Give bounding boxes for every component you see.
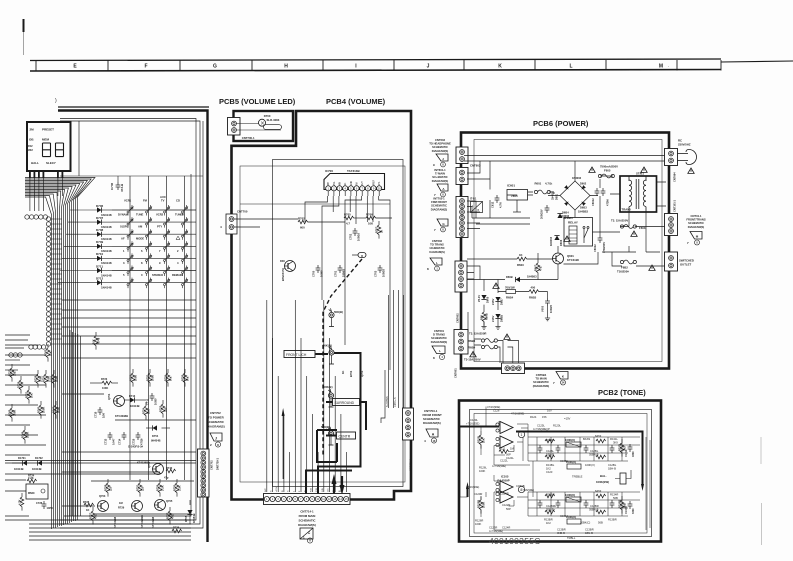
svg-text:10K: 10K xyxy=(30,393,34,398)
svg-text:C126L: C126L xyxy=(546,449,554,453)
svg-text:R707: R707 xyxy=(375,226,379,233)
svg-text:R603: R603 xyxy=(517,263,524,267)
svg-text:TRAN5: TRAN5 xyxy=(622,208,632,212)
svg-text:C6012: C6012 xyxy=(591,198,595,206)
tone network L channel xyxy=(528,437,640,461)
svg-text:47E: 47E xyxy=(94,514,98,519)
svg-text:R731: R731 xyxy=(136,484,140,491)
connector pin row xyxy=(25,215,48,349)
svg-text:N/C: N/C xyxy=(265,488,267,492)
resistor R730 xyxy=(175,483,179,493)
svg-text:C725: C725 xyxy=(132,438,136,445)
svg-text:RX2: RX2 xyxy=(28,144,34,148)
svg-text:R125R: R125R xyxy=(477,500,481,508)
connector CNT101-1 xyxy=(665,214,678,236)
svg-text:C122R: C122R xyxy=(502,503,510,507)
svg-text:D711: D711 xyxy=(96,264,103,268)
svg-text:DIAGRAM(S): DIAGRAM(S) xyxy=(432,149,449,153)
svg-text:R740: R740 xyxy=(166,466,173,470)
ref flag L2 xyxy=(432,346,445,354)
svg-text:R739: R739 xyxy=(156,484,160,491)
svg-text:C120R: C120R xyxy=(474,492,482,496)
svg-text:1/50: 1/50 xyxy=(102,412,106,418)
svg-text:SCHEMATIC: SCHEMATIC xyxy=(207,420,225,424)
svg-text:100K(K): 100K(K) xyxy=(565,438,575,442)
diode D711 xyxy=(60,270,97,272)
svg-text:1N4BB3: 1N4BB3 xyxy=(578,210,589,214)
svg-text:D707: D707 xyxy=(96,216,104,220)
svg-text:D719: D719 xyxy=(17,381,21,388)
svg-text:PCB2 (TONE): PCB2 (TONE) xyxy=(598,388,646,397)
svg-text:56P: 56P xyxy=(506,507,511,511)
svg-text:47/16(99E): 47/16(99E) xyxy=(487,405,500,409)
svg-text:600: 600 xyxy=(300,226,305,230)
svg-text:CNT601: CNT601 xyxy=(454,368,458,378)
svg-text:IC601: IC601 xyxy=(507,184,515,188)
svg-text:+15V: +15V xyxy=(276,486,278,492)
lower left analog section wires xyxy=(5,300,196,540)
svg-text:8A53: 8A53 xyxy=(595,489,602,493)
svg-text:1N414B: 1N414B xyxy=(130,404,140,408)
svg-text:C12BR: C12BR xyxy=(590,504,599,508)
svg-text:C1B9B: C1B9B xyxy=(516,484,525,488)
svg-text:C12BL: C12BL xyxy=(608,463,617,467)
svg-text:1K: 1K xyxy=(519,253,523,257)
svg-text:C123: C123 xyxy=(546,470,553,474)
svg-text:SCHEMATIC: SCHEMATIC xyxy=(688,221,704,225)
svg-text:C715: C715 xyxy=(94,411,98,418)
svg-text:R6B5: R6B5 xyxy=(529,296,537,300)
svg-text:C123R: C123R xyxy=(489,526,497,530)
resistor R606 xyxy=(482,312,486,322)
svg-text:DIAGRAM(S): DIAGRAM(S) xyxy=(423,421,441,425)
svg-text:L: L xyxy=(436,261,438,265)
diode D609 xyxy=(557,214,562,219)
svg-text:S+DOWN: S+DOWN xyxy=(386,396,389,407)
svg-text:1K2: 1K2 xyxy=(546,521,551,525)
svg-text:100K: 100K xyxy=(26,432,30,438)
diode D708 xyxy=(66,233,97,235)
diode D706 xyxy=(70,209,97,211)
svg-text:CNT602: CNT602 xyxy=(456,313,460,323)
svg-text:01SPL: 01SPL xyxy=(120,225,129,229)
wires PCB4 to CNT703 xyxy=(345,240,404,423)
svg-text:BTE1547Q: BTE1547Q xyxy=(281,268,285,281)
svg-text:R60B: R60B xyxy=(485,313,489,320)
svg-text:CENTR: CENTR xyxy=(339,435,351,439)
svg-text:CNT664: CNT664 xyxy=(673,172,677,182)
svg-text:B702: B702 xyxy=(349,370,353,377)
svg-text:TUNER: TUNER xyxy=(175,213,184,217)
svg-text:F605: F605 xyxy=(604,169,611,173)
svg-text:4.7/16(99E): 4.7/16(99E) xyxy=(520,488,534,492)
svg-text:330: 330 xyxy=(164,407,168,412)
svg-text:M: M xyxy=(659,64,663,70)
svg-text:=15V: =15V xyxy=(564,417,571,421)
svg-text:R730: R730 xyxy=(173,484,177,491)
svg-text:C706: C706 xyxy=(110,182,114,190)
svg-text:R9K: R9K xyxy=(480,315,484,320)
svg-text:1BN-B: 1BN-B xyxy=(546,453,554,457)
label CNT703-1 FROM FRONT xyxy=(423,409,443,425)
svg-text:1N4B03: 1N4B03 xyxy=(527,275,537,279)
svg-text:R732: R732 xyxy=(146,374,150,381)
svg-text:10K: 10K xyxy=(482,438,486,443)
capacitor C602 xyxy=(598,235,603,243)
svg-text:0.047: 0.047 xyxy=(112,438,116,445)
key switch matrix S701-S728 xyxy=(112,176,196,300)
svg-text:STEREO: STEREO xyxy=(152,273,163,277)
resistor R736 xyxy=(172,529,182,533)
svg-text:SCHEMATIC: SCHEMATIC xyxy=(299,519,317,523)
svg-text:Q703: Q703 xyxy=(99,494,106,498)
svg-text:D6B3: D6B3 xyxy=(580,206,587,210)
resistor R738 xyxy=(106,483,110,493)
svg-text:1N414B: 1N414B xyxy=(14,467,24,471)
svg-text:21SV: 21SV xyxy=(491,298,495,305)
svg-text:T/ MAIN: T/ MAIN xyxy=(435,172,445,176)
diode D605v xyxy=(554,236,559,241)
svg-text:1K2: 1K2 xyxy=(546,467,551,471)
resistor R728 xyxy=(131,373,135,383)
resistor R739 xyxy=(158,483,162,493)
svg-text:R717: R717 xyxy=(8,369,12,376)
svg-text:D602: D602 xyxy=(580,182,587,186)
svg-text:05BN-B: 05BN-B xyxy=(589,453,599,457)
svg-text:13PC+-5: 13PC+-5 xyxy=(394,397,397,407)
diode D1702 xyxy=(38,460,43,465)
svg-text:FRONT/TRANS: FRONT/TRANS xyxy=(686,218,705,222)
svg-text:R129L: R129L xyxy=(546,438,554,442)
svg-text:56B: 56B xyxy=(598,521,603,525)
svg-text:DIAGRAM(S): DIAGRAM(S) xyxy=(688,225,705,229)
svg-text:C702: C702 xyxy=(349,233,353,240)
PCB4 board outline xyxy=(232,111,412,500)
label CENTR xyxy=(337,432,356,439)
resistor R722 xyxy=(52,374,56,384)
resistor R743 xyxy=(46,348,50,358)
svg-text:220: 220 xyxy=(141,486,145,491)
svg-text:2-2K: 2-2K xyxy=(28,476,34,480)
svg-text:4.7/16(99E): 4.7/16(99E) xyxy=(489,529,503,533)
svg-text:1N4003: 1N4003 xyxy=(572,176,582,180)
ref flag K xyxy=(556,372,568,380)
svg-text:IC700: IC700 xyxy=(325,169,333,173)
svg-text:R719: R719 xyxy=(34,375,38,382)
svg-text:C126: C126 xyxy=(493,409,500,413)
svg-text:Q702: Q702 xyxy=(147,461,151,468)
svg-text:R720: R720 xyxy=(42,375,46,382)
svg-text:1K: 1K xyxy=(341,371,345,374)
svg-text:100K: 100K xyxy=(13,410,17,416)
svg-text:T3. 15A/250V: T3. 15A/250V xyxy=(611,219,628,223)
svg-text:INT702-1: INT702-1 xyxy=(433,197,445,201)
PCB4 inner trace rectangle xyxy=(273,160,404,487)
svg-text:50K(B): 50K(B) xyxy=(323,344,332,348)
C134R vertical xyxy=(628,501,633,509)
svg-text:CNT702: CNT702 xyxy=(210,460,214,470)
svg-text:KTC3298B: KTC3298B xyxy=(115,414,128,418)
connector CNT702 strip xyxy=(198,449,210,497)
resistor R735 xyxy=(183,373,187,383)
svg-text:CNT729-1: CNT729-1 xyxy=(409,458,413,471)
svg-text:C6022: C6022 xyxy=(593,244,597,252)
svg-text:SCHEMATIC: SCHEMATIC xyxy=(431,336,447,340)
svg-text:D713: D713 xyxy=(129,394,136,398)
ref flag A xyxy=(426,429,438,437)
resistor R125L xyxy=(479,435,483,445)
svg-text:2M: 2M xyxy=(30,128,35,132)
svg-text:VCR2: VCR2 xyxy=(156,213,164,217)
svg-text:SCHEMATIC: SCHEMATIC xyxy=(431,204,447,208)
resistor R724b xyxy=(144,406,148,416)
svg-text:R736: R736 xyxy=(173,526,180,530)
svg-text:V003: V003 xyxy=(541,305,545,312)
PCB5 board outline xyxy=(234,111,294,141)
PCB4 mid horizontal trace xyxy=(240,203,390,205)
connector INT601 xyxy=(456,168,468,185)
ref flag C xyxy=(300,528,313,539)
svg-text:C726: C726 xyxy=(36,501,43,505)
ref flag L xyxy=(430,258,442,265)
transistor Q703 xyxy=(98,501,109,512)
capacitor C715 xyxy=(98,407,103,415)
svg-text:100K(K): 100K(K) xyxy=(565,493,575,497)
svg-text:R6B4: R6B4 xyxy=(468,345,476,349)
svg-text:C703: C703 xyxy=(374,270,378,277)
svg-text:100E: 100E xyxy=(57,407,61,413)
svg-text:R727: R727 xyxy=(89,512,93,519)
svg-text:G: G xyxy=(213,64,217,70)
svg-text:100k: 100k xyxy=(151,375,155,381)
svg-text:47p: 47p xyxy=(164,476,169,480)
svg-text:7805: 7805 xyxy=(511,194,518,198)
wires to CNT604 xyxy=(468,312,519,363)
capacitor C712 xyxy=(150,393,155,401)
connector switched outlet xyxy=(665,252,678,271)
svg-text:C12BL: C12BL xyxy=(590,449,599,453)
svg-text:T3-15A/250V: T3-15A/250V xyxy=(464,358,481,362)
svg-text:DIAGRAM(S): DIAGRAM(S) xyxy=(431,207,448,211)
bottom R channel labels xyxy=(466,484,534,533)
svg-text:DIAGRAM(S): DIAGRAM(S) xyxy=(298,523,316,527)
svg-text:CNT603: CNT603 xyxy=(435,138,446,142)
svg-text:R6B4: R6B4 xyxy=(506,296,514,300)
svg-text:156: 156 xyxy=(542,415,547,419)
svg-text:SLEC7: SLEC7 xyxy=(46,161,56,165)
svg-text:200/25V: 200/25V xyxy=(540,209,544,219)
R121 zigzag xyxy=(499,450,509,454)
resistor R741 4.7K xyxy=(20,497,24,507)
resistor R740 xyxy=(39,405,43,415)
connector INT702 xyxy=(456,197,468,238)
svg-text:100K: 100K xyxy=(55,376,59,382)
svg-text:1BN-B: 1BN-B xyxy=(585,531,593,535)
svg-text:R722: R722 xyxy=(50,375,54,382)
svg-text:CNT714-1: CNT714-1 xyxy=(300,510,314,514)
svg-text:1N414B: 1N414B xyxy=(32,467,42,471)
svg-text:R12BR: R12BR xyxy=(546,493,555,497)
label CNT603 TO HEADPHONE xyxy=(429,138,451,153)
svg-text:AF: AF xyxy=(121,237,125,241)
svg-text:TO TRANS: TO TRANS xyxy=(430,243,444,247)
svg-text:Q701: Q701 xyxy=(107,393,111,400)
svg-text:100/16: 100/16 xyxy=(382,269,386,277)
svg-text:OUT: OUT xyxy=(362,181,364,186)
svg-text:C612: C612 xyxy=(491,201,495,208)
svg-text:C124L: C124L xyxy=(506,456,514,460)
svg-text:KTC3190: KTC3190 xyxy=(567,258,579,262)
svg-text:R747: R747 xyxy=(52,406,56,413)
svg-text:R734: R734 xyxy=(164,374,168,381)
svg-text:OUTLET: OUTLET xyxy=(680,263,691,267)
7-segment digits 88 xyxy=(43,143,64,157)
svg-text:50K(B): 50K(B) xyxy=(324,385,333,389)
svg-text:MEM: MEM xyxy=(42,138,50,142)
svg-text:1: 1 xyxy=(521,433,523,437)
bridge rectifier D601-D604 xyxy=(560,181,590,210)
op-amp IC105b xyxy=(500,436,513,448)
svg-text:BASS: BASS xyxy=(583,437,590,441)
transistor Q702 KT4126B xyxy=(153,464,164,475)
svg-text:R740: R740 xyxy=(37,406,41,413)
svg-text:10/50: 10/50 xyxy=(47,506,54,510)
wire arrows xyxy=(332,474,337,484)
svg-text:H: H xyxy=(284,64,288,70)
svg-text:C714: C714 xyxy=(118,438,122,445)
svg-text:47E: 47E xyxy=(171,514,175,519)
transistor Q700 xyxy=(285,261,296,272)
svg-text:1K: 1K xyxy=(86,508,89,512)
zener D608 xyxy=(495,314,500,319)
svg-text:47/16(99E): 47/16(99E) xyxy=(511,412,524,416)
potentiometer VR702 50K(B) xyxy=(328,389,331,392)
svg-text:D606: D606 xyxy=(559,239,563,246)
svg-text:R729: R729 xyxy=(118,506,125,510)
svg-text:R735: R735 xyxy=(181,374,185,381)
svg-text:D6BB: D6BB xyxy=(500,315,504,322)
svg-text:D TRANS: D TRANS xyxy=(433,333,445,337)
svg-text:R725: R725 xyxy=(159,405,163,412)
svg-text:R134R: R134R xyxy=(610,493,618,497)
svg-text:4.7/1t: 4.7/1t xyxy=(545,182,552,186)
resistor R732 xyxy=(148,373,152,383)
connector CNT604 xyxy=(502,363,525,374)
transistor Q705 xyxy=(155,500,166,511)
svg-text:CNT700-1: CNT700-1 xyxy=(242,136,255,140)
svg-text:D705: D705 xyxy=(184,515,188,522)
svg-text:CNT602: CNT602 xyxy=(432,239,443,243)
svg-text:VCR1: VCR1 xyxy=(124,199,132,203)
svg-text:R13BR: R13BR xyxy=(608,518,617,522)
svg-text:TREBLE: TREBLE xyxy=(572,475,583,479)
svg-text:T16/250#: T16/250# xyxy=(617,270,629,274)
svg-text:473-B: 473-B xyxy=(120,183,124,192)
resistor R706 10K xyxy=(366,216,376,220)
capacitor C604 xyxy=(545,298,550,306)
svg-text:C713: C713 xyxy=(104,438,108,445)
PCB2 board outline xyxy=(459,401,661,542)
resistor R702 600 xyxy=(298,220,308,224)
wires to CNT714 xyxy=(267,300,347,492)
svg-text:47/16(99E): 47/16(99E) xyxy=(466,485,479,489)
svg-text:D710: D710 xyxy=(96,252,104,256)
svg-text:50K(B): 50K(B) xyxy=(334,310,343,314)
svg-text:90k: 90k xyxy=(169,376,173,381)
resistor R746 xyxy=(23,430,27,440)
PCB2 inner trace rectangles xyxy=(470,410,652,537)
dashed mechanical link xyxy=(323,259,362,455)
svg-text:R745: R745 xyxy=(8,409,12,416)
front panel schematic border xyxy=(58,106,209,108)
transistor Q601 KTC3198 xyxy=(553,253,564,264)
svg-text:R120L: R120L xyxy=(553,424,561,428)
svg-text:D605: D605 xyxy=(486,296,490,303)
ref flag M xyxy=(690,232,702,240)
svg-text:D709: D709 xyxy=(96,240,104,244)
capacitor C714 xyxy=(122,432,127,440)
svg-text:RIB: RIB xyxy=(328,182,330,186)
svg-text:L: L xyxy=(439,349,441,353)
label CNT602 TO TRANS xyxy=(429,239,445,254)
C131L vertical xyxy=(628,444,633,452)
svg-text:DIAGRAM(S): DIAGRAM(S) xyxy=(431,340,448,344)
svg-text:400: 400 xyxy=(531,285,536,289)
svg-text:A: A xyxy=(309,540,311,543)
svg-text:C124R: C124R xyxy=(502,526,510,530)
svg-text:3K9: 3K9 xyxy=(613,441,618,445)
svg-text:D1702: D1702 xyxy=(35,456,43,460)
PCB6 top bus wires xyxy=(464,156,666,162)
resistor R731 xyxy=(138,483,142,493)
relay RY601 xyxy=(564,218,593,247)
svg-text:100K: 100K xyxy=(102,386,108,390)
svg-text:R13BR: R13BR xyxy=(544,518,553,522)
svg-text:BAL.: BAL. xyxy=(600,474,607,478)
svg-text:UAGRAM(S): UAGRAM(S) xyxy=(429,250,445,254)
svg-text:1CHEMATIC: 1CHEMATIC xyxy=(429,246,445,250)
connector CNT714-1 xyxy=(264,494,351,505)
svg-text:PRESET: PRESET xyxy=(42,128,54,132)
resistor R721 xyxy=(27,390,31,400)
cap C600 xyxy=(545,205,550,213)
svg-text:CNT700: CNT700 xyxy=(237,210,248,214)
svg-text:DIAGRAM(S): DIAGRAM(S) xyxy=(432,179,449,183)
svg-text:8A53: 8A53 xyxy=(595,434,602,438)
AC plug symbol xyxy=(678,150,697,165)
svg-text:D712: D712 xyxy=(96,276,104,280)
svg-text:4.7N: 4.7N xyxy=(499,202,503,208)
svg-text:05BN-B: 05BN-B xyxy=(589,508,599,512)
svg-text:10BK(C): 10BK(C) xyxy=(580,521,590,525)
svg-text:DNT739-1: DNT739-1 xyxy=(216,457,220,470)
svg-text:(DIAGRAMS): (DIAGRAMS) xyxy=(533,384,550,388)
svg-text:F: F xyxy=(144,64,147,70)
label CNT604 TO MAIN xyxy=(533,373,550,388)
svg-text:220: 220 xyxy=(109,486,113,491)
svg-text:4.7K: 4.7K xyxy=(18,499,22,505)
resistor R607 xyxy=(536,263,540,273)
svg-text:VREF: VREF xyxy=(374,179,376,186)
connector CNT703-1 xyxy=(403,408,414,440)
svg-text:TO POWER: TO POWER xyxy=(208,416,225,420)
svg-text:R135R: R135R xyxy=(618,500,622,508)
svg-text:HALL: HALL xyxy=(31,161,39,165)
svg-text:TO MAIN: TO MAIN xyxy=(535,377,546,381)
R135R vertical xyxy=(620,500,624,510)
resistor R745 xyxy=(10,408,14,418)
svg-text:CD: CD xyxy=(176,199,180,203)
